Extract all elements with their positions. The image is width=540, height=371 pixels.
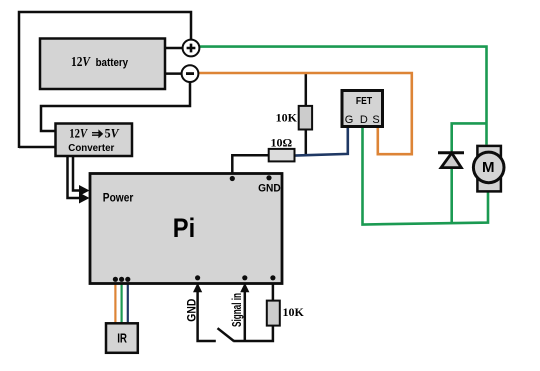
svg-text:GND: GND (258, 183, 281, 195)
svg-text:5V: 5V (105, 127, 121, 141)
svg-text:10K: 10K (276, 111, 298, 125)
svg-text:D: D (360, 114, 368, 126)
svg-text:Signal in: Signal in (230, 293, 244, 327)
svg-text:FET: FET (356, 95, 373, 107)
svg-text:GND: GND (185, 298, 199, 321)
svg-text:Pi: Pi (173, 213, 195, 243)
svg-text:10Ω: 10Ω (270, 136, 292, 150)
svg-text:Power: Power (103, 191, 134, 205)
svg-text:10K: 10K (283, 305, 305, 319)
svg-text:G: G (345, 114, 354, 126)
svg-text:battery: battery (96, 57, 129, 69)
svg-text:M: M (482, 159, 495, 176)
svg-text:S: S (372, 114, 379, 126)
svg-text:Converter: Converter (68, 143, 114, 154)
svg-text:12V: 12V (69, 127, 88, 141)
svg-text:IR: IR (117, 331, 127, 345)
svg-text:12V: 12V (71, 55, 91, 70)
